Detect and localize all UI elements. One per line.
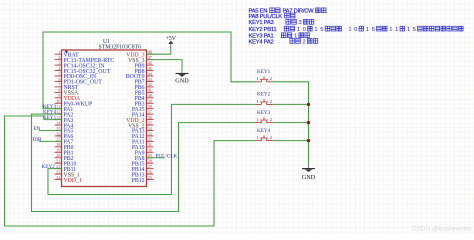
- svg-text:EN: EN: [34, 126, 41, 132]
- svg-text:8: 8: [58, 88, 60, 93]
- U1 pin 30 PA9: [135, 148, 154, 157]
- wire net KEY4: PA2 to switch KEY3: [32, 114, 256, 211]
- svg-text:GND: GND: [302, 174, 316, 181]
- U1 pin 31 PA10: [132, 142, 154, 151]
- svg-text:KEY1: KEY1: [43, 115, 57, 121]
- U1 pin 11 PA1: [55, 104, 74, 113]
- U1 pin 5 PD0-OSC_IN: [55, 71, 97, 80]
- svg-text:2: 2: [270, 135, 272, 140]
- wire net KEY2: PB11 to switch KEY2: [48, 104, 255, 194]
- U1 pin 41 PB5: [135, 88, 154, 97]
- switch KEY2: [255, 92, 273, 105]
- svg-text:2: 2: [270, 99, 272, 104]
- svg-text:2: 2: [270, 76, 272, 81]
- U1 pin 38 PA15: [132, 104, 154, 113]
- U1 pin 7 NRST: [55, 82, 79, 91]
- switch KEY1: [255, 69, 273, 82]
- svg-text:27: 27: [148, 164, 152, 169]
- svg-text:KEY2: KEY2: [257, 92, 271, 98]
- note line5 KEY3 PA1: [249, 33, 310, 40]
- U1 pin 37 PA14: [132, 109, 154, 118]
- svg-text:6: 6: [58, 77, 60, 82]
- U1 pin 9 VDDA: [55, 93, 82, 102]
- switch KEY4: [255, 128, 273, 141]
- wire stub DIR PA7: [39, 140, 62, 142]
- U1 pin 43 PB7: [135, 77, 154, 86]
- svg-text:0: 0: [303, 27, 306, 33]
- svg-text:5: 5: [372, 27, 375, 33]
- U1 pin 6 PD1-OSC_OUT: [55, 77, 103, 86]
- svg-text:DIR: DIR: [33, 137, 42, 143]
- U1 pin 24 VDD_1: [55, 175, 82, 184]
- wire VSS_3 to GND: [147, 60, 183, 69]
- U1 pin 19 PB1: [55, 148, 74, 157]
- svg-text:PA8 PUL/CLK: PA8 PUL/CLK: [249, 14, 283, 20]
- U1 pin 13 PA3: [55, 115, 74, 124]
- U1 pin 20 PB2: [55, 153, 74, 162]
- wire stub EN PA5: [39, 130, 62, 132]
- svg-text:5: 5: [413, 27, 416, 33]
- svg-text:KEY1 PA3: KEY1 PA3: [249, 20, 274, 26]
- power +5V: [166, 36, 177, 49]
- svg-text:5: 5: [58, 71, 60, 76]
- svg-text:39: 39: [148, 99, 152, 104]
- ground GND near U1: [175, 69, 189, 85]
- U1 pin 22 PB11: [55, 164, 77, 173]
- U1 pin 18 PB0: [55, 142, 74, 151]
- svg-text:1: 1: [256, 76, 258, 81]
- wire net KEY3: PA1 to switch KEY1: [43, 32, 255, 109]
- svg-text:41: 41: [148, 88, 152, 93]
- svg-text:38: 38: [148, 104, 152, 109]
- U1 pin 2 PC13-TAMPER-RTC: [55, 55, 115, 64]
- U1 pin 44 BOOT0: [126, 71, 154, 80]
- svg-text:43: 43: [148, 77, 152, 82]
- U1 pin 36 VDD_2: [126, 115, 153, 124]
- svg-text:3: 3: [299, 20, 302, 26]
- U1 pin 46 PB9: [135, 60, 154, 69]
- U1 pin 32 PA11: [132, 137, 153, 146]
- svg-text:32: 32: [148, 137, 152, 142]
- svg-text:18: 18: [56, 142, 60, 147]
- svg-text:21: 21: [56, 159, 60, 164]
- svg-text:1: 1: [366, 27, 369, 33]
- note line2 PA8 PUL/CLK: [249, 13, 295, 20]
- svg-text:PUL/CLK: PUL/CLK: [156, 153, 178, 159]
- svg-text:PB12: PB12: [132, 178, 145, 184]
- svg-text:37: 37: [148, 109, 152, 114]
- U1 pin 28 PB15: [132, 159, 154, 168]
- U1 pin 4 PC15-OSC32_OUT: [55, 66, 111, 75]
- U1 pin 14 PA4: [55, 120, 74, 129]
- U1 pin 1 VBAT: [55, 50, 80, 59]
- wire switches to GND bus: [273, 82, 309, 164]
- svg-text:GND: GND: [175, 78, 189, 85]
- ground GND keys bus: [302, 164, 316, 181]
- U1 pin 25 PB12: [132, 175, 154, 184]
- junction dots: [307, 103, 310, 143]
- svg-text:16: 16: [56, 131, 60, 136]
- svg-text:KEY4: KEY4: [257, 128, 271, 134]
- U1 pin 34 PA13: [132, 126, 154, 135]
- svg-text:26: 26: [148, 169, 152, 174]
- svg-text:5: 5: [320, 27, 323, 33]
- U1 pin 40 PB4: [135, 93, 154, 102]
- svg-text:KEY4 PA2: KEY4 PA2: [249, 39, 274, 45]
- svg-text:+5V: +5V: [166, 36, 177, 42]
- svg-text:2: 2: [270, 117, 272, 122]
- svg-text:25: 25: [148, 175, 152, 180]
- U1 pin 16 PA6: [55, 131, 74, 140]
- svg-text:19: 19: [56, 148, 60, 153]
- svg-text:1: 1: [314, 27, 317, 33]
- svg-text:KEY2: KEY2: [42, 164, 56, 170]
- U1 pin 48 VDD_3: [126, 50, 153, 59]
- U1 pin 39 PB3: [135, 99, 154, 108]
- svg-text:1: 1: [256, 99, 258, 104]
- svg-text:2: 2: [303, 39, 306, 45]
- U1 pin 10 PA0-WKUP: [55, 99, 93, 108]
- U1 pin 8 VSSA: [55, 88, 80, 97]
- svg-text:VDD_1: VDD_1: [64, 178, 82, 184]
- svg-text:1: 1: [407, 27, 410, 33]
- svg-text:1: 1: [389, 27, 392, 33]
- U1 pin 45 PB8: [135, 66, 154, 75]
- svg-text:23: 23: [56, 169, 60, 174]
- U1 pin 26 PB13: [132, 169, 154, 178]
- note line1 PA5 EN / PA7 DIR-CW: [249, 8, 327, 15]
- svg-text:20: 20: [56, 153, 60, 158]
- U1 pin 17 PA7: [55, 137, 74, 146]
- svg-text:2: 2: [58, 55, 60, 60]
- note line4 KEY2 PB11: [249, 26, 464, 33]
- U1 pin 29 PA8: [135, 153, 154, 162]
- U1 pin 47 VSS_3: [128, 55, 153, 64]
- svg-text:30: 30: [148, 148, 152, 153]
- svg-text:45: 45: [148, 66, 152, 71]
- svg-text:PA7 DIR/CW: PA7 DIR/CW: [283, 9, 315, 15]
- note line6 KEY4 PA2: [249, 39, 318, 46]
- U1 pin 15 PA5: [55, 126, 74, 135]
- pin-1 marker: [65, 51, 68, 54]
- wire VDD_3 to +5V: [147, 50, 171, 55]
- svg-text:KEY1: KEY1: [257, 69, 271, 75]
- note line3 KEY1 PA3: [249, 19, 314, 26]
- svg-text:1: 1: [256, 117, 258, 122]
- U1 pin 3 PC14-OSC32_IN: [55, 60, 106, 69]
- U1 pin 33 PA12: [132, 131, 154, 140]
- U1 pin 35 VSS_2: [128, 120, 153, 129]
- U1 pin 27 PB14: [132, 164, 154, 173]
- svg-text:33: 33: [148, 131, 152, 136]
- svg-text:40: 40: [148, 93, 152, 98]
- svg-text:10: 10: [56, 99, 60, 104]
- svg-text:7: 7: [58, 82, 60, 87]
- svg-text:35: 35: [148, 120, 152, 125]
- svg-text:CSDN @kuaileweea: CSDN @kuaileweea: [412, 226, 472, 233]
- svg-text:31: 31: [148, 142, 152, 147]
- wire net KEY1: PA3 to switch KEY4: [5, 116, 256, 226]
- svg-text:KEY2 PB11: KEY2 PB11: [249, 27, 277, 33]
- svg-text:28: 28: [148, 159, 152, 164]
- svg-text:1: 1: [256, 135, 258, 140]
- switch KEY3: [255, 110, 273, 123]
- wire stub PUL/CLK PA8: [147, 157, 165, 159]
- IC U1 body: [62, 50, 147, 187]
- svg-text:1: 1: [348, 27, 351, 33]
- svg-text:46: 46: [148, 60, 152, 65]
- svg-text:1: 1: [58, 50, 60, 55]
- svg-text:0: 0: [354, 27, 357, 33]
- svg-text:9: 9: [58, 93, 60, 98]
- U1 pin 21 PB10: [55, 159, 77, 168]
- svg-text:1: 1: [395, 27, 398, 33]
- svg-text:KEY3: KEY3: [257, 110, 271, 116]
- svg-text:42: 42: [148, 82, 152, 87]
- U1 pin 12 PA2: [55, 109, 74, 118]
- svg-text:3: 3: [58, 60, 60, 65]
- svg-text:36: 36: [148, 115, 152, 120]
- U1 pin 23 VSS_1: [55, 169, 81, 178]
- U1 pin 42 PB6: [135, 82, 154, 91]
- svg-text:1: 1: [297, 27, 300, 33]
